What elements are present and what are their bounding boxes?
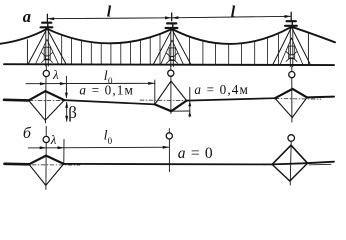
tick lambda a — [65, 76, 67, 90]
tick l0 end a — [154, 80, 156, 104]
stem above C1a — [45, 65, 47, 70]
arrowhead at pant center — [40, 82, 47, 85]
arrowhead at pant center b — [40, 146, 47, 149]
dimension line lambda/l0 a — [26, 82, 155, 84]
dropper span3 — [307, 34, 309, 66]
svg-text:β: β — [68, 103, 77, 122]
tick support1 top — [46, 14, 48, 21]
circle C2a — [168, 70, 174, 76]
contact wire part b left — [5, 163, 30, 166]
dash-dot centerline of P1b — [14, 164, 80, 166]
arrowhead at S3 — [285, 15, 292, 18]
pantograph P2b rhombus — [272, 145, 307, 164]
svg-text:λ: λ — [50, 132, 57, 147]
reference line from V dip bottom — [171, 110, 190, 112]
dash-dot centerline of P3a — [266, 98, 321, 101]
wire sloping span a — [64, 100, 155, 104]
tick support2 top — [171, 13, 173, 21]
circle C1b — [43, 136, 49, 142]
arrowhead at lambda tick — [60, 82, 67, 85]
dimension line lambda/l0 b — [28, 146, 169, 149]
centerline through P1b — [45, 143, 47, 190]
wire rising span a — [187, 98, 275, 100]
centerline P3a vertical — [291, 78, 293, 122]
support 3 — [273, 21, 311, 66]
svg-text:a = 0,4м: a = 0,4м — [194, 82, 249, 97]
contact wire through P2b — [272, 163, 307, 164]
arrowhead at l0 end a — [148, 82, 155, 85]
svg-text:а: а — [23, 7, 31, 26]
stem above C2a — [170, 66, 172, 70]
circle C2b — [166, 133, 172, 139]
droppers span1 — [62, 34, 160, 65]
arrowhead at lambda tick b — [58, 146, 65, 149]
dash-dot centerline of P1a — [20, 99, 78, 102]
stem above C1b — [45, 126, 47, 136]
pantograph P1a top edges (wire lifted) — [29, 91, 65, 100]
droppers span0 — [26, 40, 28, 64]
pantograph P1a lower frame — [29, 100, 65, 120]
tick support3 top — [290, 12, 292, 20]
arrowhead at S1 — [48, 17, 55, 20]
contact wire profile part a — [4, 99, 29, 102]
svg-text:б: б — [23, 125, 32, 142]
dash-dot centerline P2b — [263, 163, 317, 165]
dash-dot centerline of P2a — [140, 99, 200, 101]
arrow down to wire at kink — [65, 88, 67, 97]
wire right end b — [306, 162, 334, 164]
svg-text:a = 0: a = 0 — [178, 145, 214, 162]
messenger wire curve — [0, 27, 335, 44]
stem above C3a — [291, 67, 293, 72]
contact wire top section — [4, 63, 334, 66]
pantograph P3a top edges — [275, 89, 307, 98]
svg-text:l: l — [107, 4, 112, 21]
stem above C2b — [168, 129, 170, 133]
svg-text:0: 0 — [108, 136, 113, 146]
circle C3b — [288, 135, 295, 142]
circle C3a — [289, 72, 295, 78]
wire right end a — [307, 96, 334, 99]
arrowheads at S2 — [165, 16, 172, 19]
dimension line l span2 — [172, 16, 292, 18]
contact wire part b straight — [64, 163, 272, 166]
centerline through pantograph P1a — [45, 77, 48, 123]
svg-text:l: l — [231, 3, 236, 20]
droppers span2 — [190, 33, 279, 65]
pantograph P1b lower frame — [29, 164, 64, 186]
dimension line l span1 — [47, 17, 171, 20]
pantograph P1b top edges — [29, 156, 64, 165]
pantograph P2a upper frame — [155, 81, 187, 104]
support 1 — [28, 23, 66, 66]
centerline P2b vertical — [290, 141, 291, 185]
wire dip under P2a — [155, 101, 187, 112]
a=0,4 dimension line — [189, 88, 191, 118]
beta dimension arrows — [66, 102, 68, 121]
svg-text:λ: λ — [52, 67, 59, 82]
pantograph P3a lower frame — [275, 97, 307, 117]
support 2 — [153, 23, 191, 66]
centerline P2a vertical — [170, 76, 172, 113]
tick lambda b — [63, 140, 65, 164]
svg-text:a = 0,1м: a = 0,1м — [79, 82, 134, 97]
arrowhead at l0 end b — [163, 146, 170, 149]
tick a=0 position — [168, 139, 170, 172]
circle C1a — [43, 70, 49, 76]
